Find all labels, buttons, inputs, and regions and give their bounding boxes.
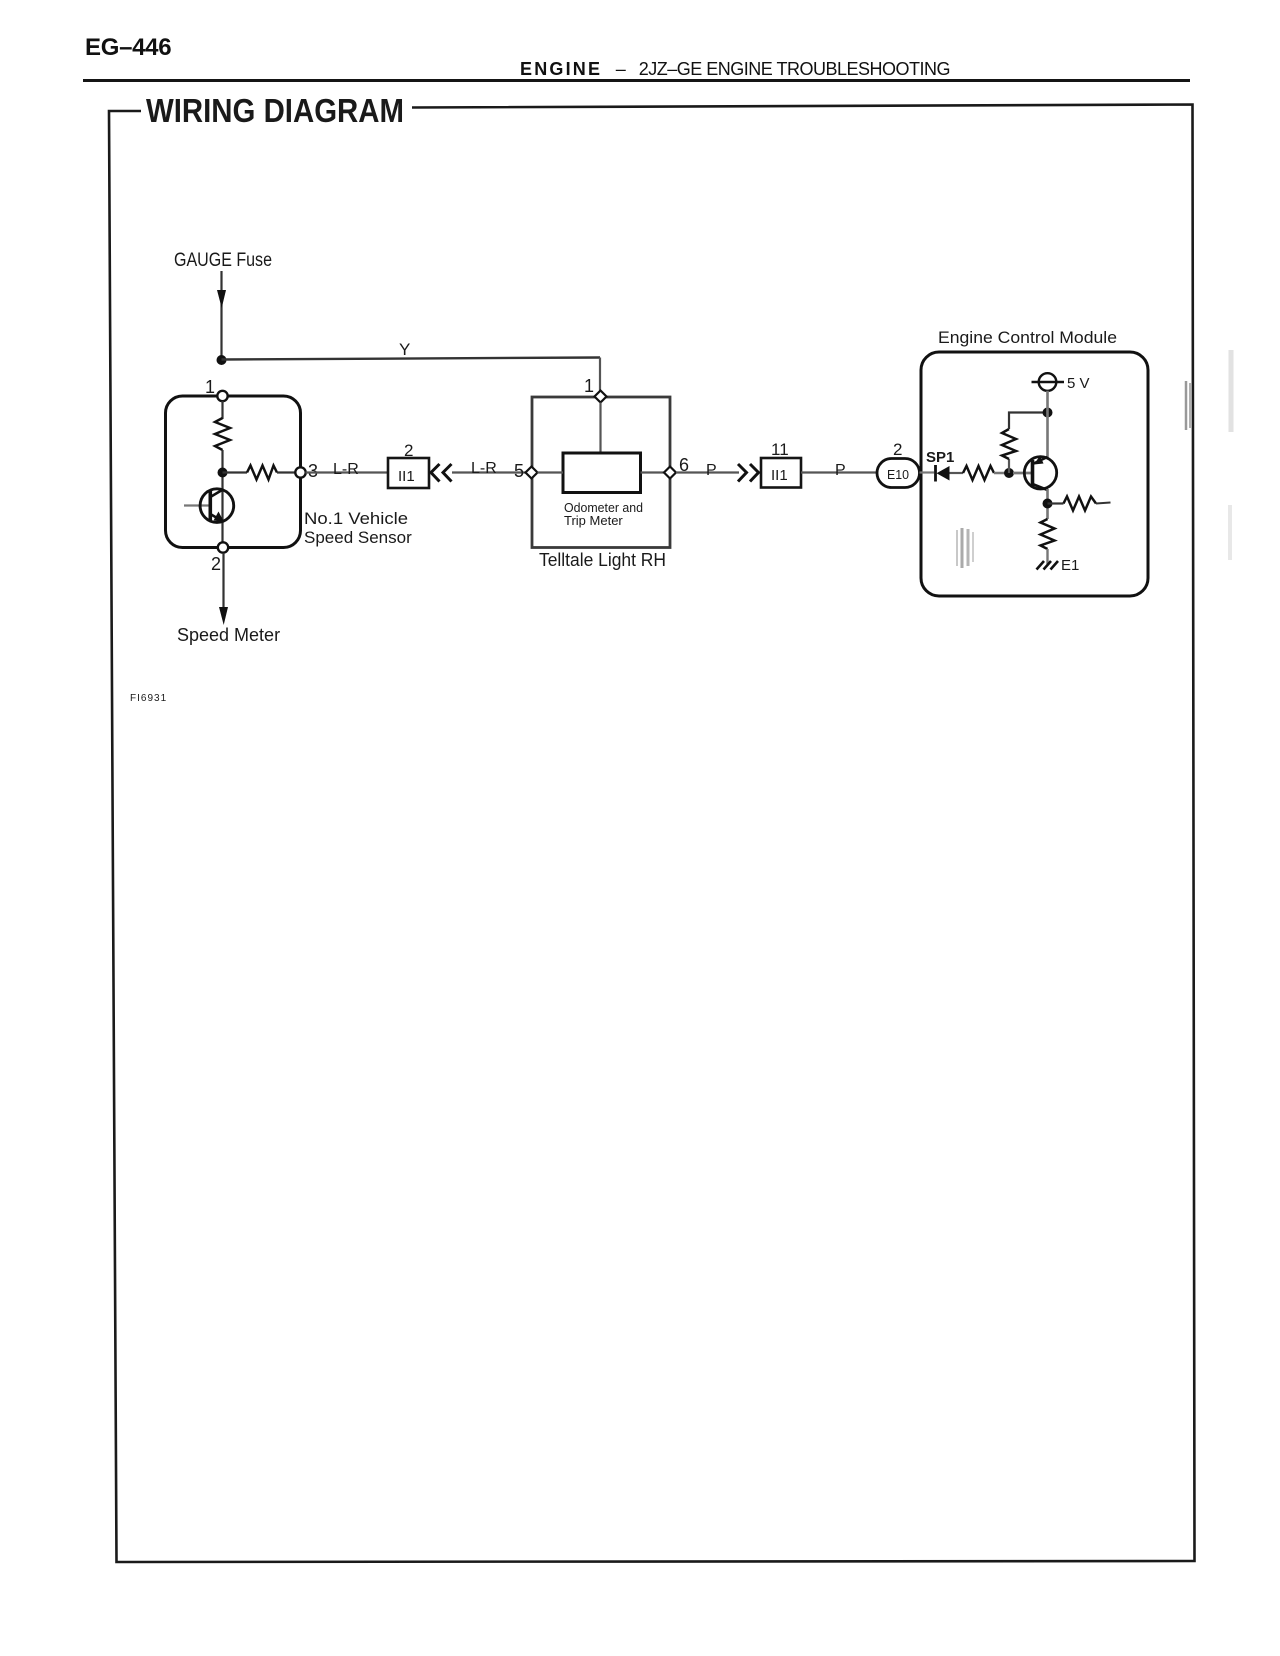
wire base junction up to resistor xyxy=(1008,459,1010,473)
svg-text:GAUGE Fuse: GAUGE Fuse xyxy=(174,250,272,271)
power symbol 5V xyxy=(1032,373,1090,392)
pin label 2 above connector xyxy=(404,441,413,460)
wire resistor to pin 3 xyxy=(277,471,296,473)
pin 1 of speed sensor xyxy=(217,391,227,401)
pin 6 diamond xyxy=(664,467,676,479)
wire label L-R xyxy=(471,460,497,477)
label GAUGE Fuse xyxy=(174,250,272,271)
pin 5 diamond xyxy=(526,467,538,479)
node junction at gauge tap xyxy=(217,355,227,365)
section title WIRING DIAGRAM xyxy=(146,92,404,129)
arrow down to speed meter xyxy=(219,607,228,625)
svg-text:Speed Meter: Speed Meter xyxy=(177,625,280,645)
svg-text:11: 11 xyxy=(771,440,789,459)
resistor horizontal output xyxy=(1064,497,1097,511)
engine control module box xyxy=(921,352,1148,596)
wire odometer box to pin6 xyxy=(641,471,665,473)
wire junction to horizontal resistor xyxy=(223,471,248,473)
wire pin3 to connector II1 xyxy=(306,471,389,473)
pin label 2 xyxy=(211,554,221,574)
svg-text:Telltale Light RH: Telltale Light RH xyxy=(539,550,666,570)
svg-text:II1: II1 xyxy=(771,467,788,484)
svg-text:2: 2 xyxy=(404,441,413,460)
pin label 6 xyxy=(679,455,689,475)
speed sensor box xyxy=(166,396,301,548)
pin label 2 above E10 xyxy=(893,440,902,459)
diode D1 xyxy=(936,465,950,482)
transistor Q2 in ECM xyxy=(1013,456,1057,491)
scan artifact right margin xyxy=(1186,350,1231,560)
svg-text:Trip Meter: Trip Meter xyxy=(564,513,623,528)
svg-text:5 V: 5 V xyxy=(1067,375,1090,392)
wire pin2 down to speed meter xyxy=(222,553,224,609)
svg-text:5: 5 xyxy=(514,461,524,481)
svg-text:WIRING DIAGRAM: WIRING DIAGRAM xyxy=(146,92,404,129)
connector chevrons left pair xyxy=(431,464,452,482)
wire pin1 down to odometer box xyxy=(599,403,601,454)
svg-text:E10: E10 xyxy=(887,467,909,482)
wire 5V down through junction to transistor xyxy=(1046,391,1049,458)
wire E10 into ECM xyxy=(920,471,935,473)
odometer and trip meter box xyxy=(563,453,641,493)
wire output resistor tail xyxy=(1096,503,1111,504)
wire resistor to ground xyxy=(1046,549,1048,564)
wire resistor to transistor xyxy=(221,450,223,543)
pin label 3 xyxy=(308,461,318,481)
wire pin1 to resistor xyxy=(221,401,223,419)
connector II1 right box xyxy=(761,458,801,488)
svg-text:P: P xyxy=(835,462,846,479)
wire resistor to base xyxy=(994,472,1031,474)
resistor horizontal at base xyxy=(963,466,994,480)
wire Y vertical drop xyxy=(599,358,601,393)
wire label L-R xyxy=(333,461,359,478)
wire resistor top to collector rail xyxy=(1009,413,1048,430)
svg-text:No.1 Vehicle: No.1 Vehicle xyxy=(304,509,408,528)
wire label P xyxy=(835,462,846,479)
svg-text:SP1: SP1 xyxy=(926,449,954,466)
svg-text:1: 1 xyxy=(205,377,215,397)
pin 3 of speed sensor xyxy=(295,467,305,477)
wire transistor emitter down xyxy=(1046,489,1049,519)
wire pin5 to odometer box xyxy=(538,471,564,473)
node collector rail junction xyxy=(1043,408,1053,418)
label Speed Meter xyxy=(177,625,280,645)
pin 2 of speed sensor xyxy=(218,542,228,552)
node junction inside sensor xyxy=(218,468,228,478)
pin label 5 xyxy=(514,461,524,481)
wire Y horizontal xyxy=(222,358,601,360)
svg-text:P: P xyxy=(706,462,717,479)
figure code FI6931 xyxy=(130,693,167,704)
page frame border xyxy=(109,105,1195,1563)
wire label P xyxy=(706,462,717,479)
pin label 11 above connector xyxy=(771,440,789,459)
svg-text:L-R: L-R xyxy=(333,461,359,478)
connector chevrons right pair xyxy=(738,464,759,482)
label Y xyxy=(399,340,410,359)
wire II1 to E10 xyxy=(801,471,877,473)
node emitter junction xyxy=(1043,499,1053,509)
connector E10 oval xyxy=(877,459,920,488)
svg-text:2: 2 xyxy=(211,554,221,574)
wire gauge fuse down xyxy=(220,271,222,360)
svg-text:2: 2 xyxy=(893,440,902,459)
label Telltale Light RH xyxy=(539,550,666,570)
page number EG-446 xyxy=(85,34,171,62)
svg-text:3: 3 xyxy=(308,461,318,481)
resistor vertical in sensor xyxy=(215,418,230,450)
svg-text:FI6931: FI6931 xyxy=(130,693,167,704)
telltale light RH box xyxy=(532,397,670,548)
pin label 1 xyxy=(205,377,215,397)
header title xyxy=(520,59,950,80)
wire junction to output resistor xyxy=(1048,502,1064,504)
arrow down on gauge wire xyxy=(217,290,226,308)
node base junction xyxy=(1004,468,1014,478)
svg-text:L-R: L-R xyxy=(471,460,497,477)
svg-text:II1: II1 xyxy=(398,468,415,485)
label SP1 xyxy=(926,449,954,466)
connector II1 left box xyxy=(388,458,429,488)
svg-text:1: 1 xyxy=(584,376,594,396)
resistor vertical pull-up xyxy=(1002,429,1016,459)
transistor Q1 in sensor xyxy=(184,489,234,523)
label Odometer and Trip Meter xyxy=(564,500,643,528)
label Engine Control Module xyxy=(938,328,1117,347)
svg-text:E1: E1 xyxy=(1061,557,1079,574)
scan smudge inside ECM xyxy=(957,528,973,568)
label No.1 Vehicle Speed Sensor xyxy=(304,509,412,547)
wire pin6 to chevrons xyxy=(676,471,739,473)
resistor horizontal in sensor xyxy=(247,466,277,480)
resistor vertical to ground xyxy=(1041,519,1055,549)
svg-text:Engine Control Module: Engine Control Module xyxy=(938,328,1117,347)
svg-text:Y: Y xyxy=(399,340,410,359)
wire chevrons to telltale pin5 xyxy=(452,471,526,473)
ground E1 xyxy=(1037,557,1080,574)
pin 1 diamond xyxy=(595,391,607,403)
pin label 1 xyxy=(584,376,594,396)
svg-text:Speed Sensor: Speed Sensor xyxy=(304,528,412,547)
wire diode to resistor xyxy=(950,472,964,474)
header rule xyxy=(83,79,1190,82)
